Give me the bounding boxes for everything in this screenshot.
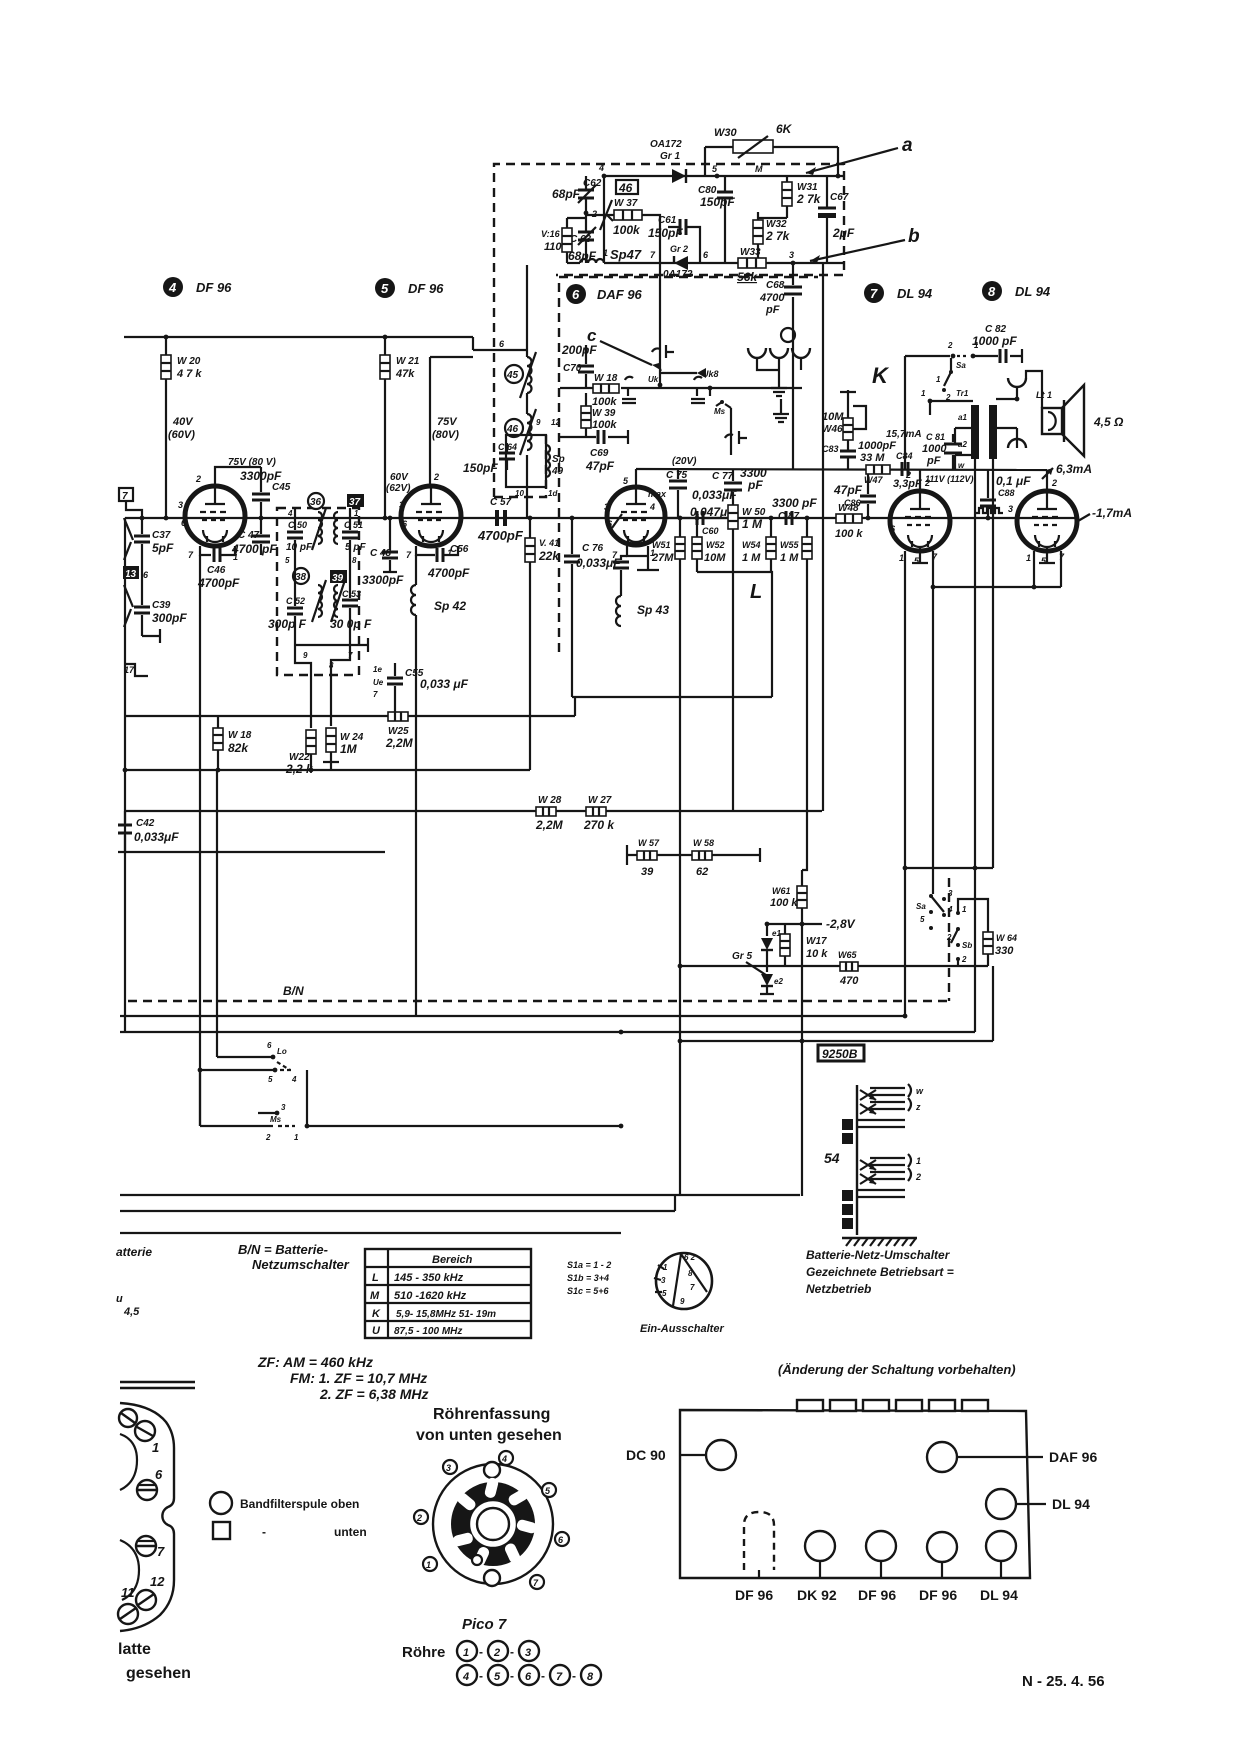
svg-text:z: z	[915, 1102, 921, 1112]
socket pin labels	[414, 1451, 569, 1589]
svg-text:Lo: Lo	[277, 1047, 287, 1056]
svg-text:1d: 1d	[548, 489, 558, 498]
wire bus y1016	[120, 1015, 905, 1017]
svg-text:150pF: 150pF	[463, 461, 498, 475]
wire from FM box down	[526, 265, 528, 357]
svg-text:45: 45	[506, 370, 519, 381]
dial plate outline	[120, 1403, 174, 1631]
node pin5	[712, 164, 719, 178]
svg-text:1: 1	[921, 389, 926, 398]
svg-text:b: b	[908, 226, 920, 247]
coil 46	[520, 409, 536, 455]
wire contact drop	[730, 418, 732, 455]
svg-text:W65: W65	[838, 950, 858, 960]
resistor W48 100k	[836, 514, 862, 523]
svg-text:1: 1	[152, 1440, 159, 1455]
capacitor C63 68pF trimmer	[578, 213, 596, 263]
svg-text:U: U	[372, 1325, 381, 1337]
node pin3	[789, 250, 795, 265]
svg-text:1: 1	[1026, 553, 1031, 563]
diode Gr1	[672, 169, 686, 183]
resistor W65 470	[840, 962, 858, 971]
svg-text:a1: a1	[958, 413, 967, 422]
resistor W20 47k	[161, 337, 171, 518]
svg-text:C56: C56	[450, 544, 469, 555]
contact Ms	[258, 1103, 286, 1124]
node pin4	[598, 163, 606, 178]
svg-text:DAF 96: DAF 96	[597, 287, 643, 302]
svg-text:27M: 27M	[651, 552, 674, 564]
switch contact pair mid	[691, 377, 705, 403]
wire bus y1032	[120, 868, 975, 1032]
capacitor C50 10pF	[287, 508, 303, 560]
svg-text:-1,7mA: -1,7mA	[1092, 506, 1132, 520]
label 75V (80V)	[432, 416, 459, 441]
boxed 9250B	[818, 1045, 864, 1061]
svg-text:62: 62	[696, 866, 708, 878]
S4 lower braces	[908, 1154, 921, 1182]
svg-text:C37: C37	[152, 530, 171, 541]
svg-text:latte: latte	[118, 1641, 151, 1658]
svg-text:W33: W33	[740, 247, 761, 258]
tube hole DF96 mid	[866, 1531, 896, 1578]
wire between coils	[526, 393, 528, 414]
svg-text:2μF: 2μF	[832, 226, 855, 240]
wire transformer verticals down	[975, 458, 993, 868]
svg-text:11: 11	[121, 1585, 135, 1600]
tube hole DL94 upper	[986, 1489, 1016, 1519]
svg-text:S1a = 1 - 2: S1a = 1 - 2	[567, 1260, 611, 1270]
speaker horn	[1062, 385, 1084, 456]
svg-text:DF 96: DF 96	[196, 280, 232, 295]
svg-text:W52: W52	[706, 540, 725, 550]
svg-text:4700: 4700	[759, 292, 785, 304]
svg-text:111V (112V): 111V (112V)	[925, 474, 974, 484]
capacitor C77 3300pF	[724, 469, 742, 505]
label 4700 pF	[759, 292, 785, 316]
capacitor C88 0.1uF	[980, 469, 996, 518]
svg-text:2: 2	[905, 470, 911, 480]
svg-text:37: 37	[349, 497, 361, 508]
dashed enclosure FM ratio detector	[494, 164, 844, 497]
svg-text:L: L	[750, 581, 762, 603]
badge tube 7	[864, 283, 884, 303]
node secondary	[1015, 397, 1020, 402]
wire W52 to L node	[697, 572, 772, 697]
svg-text:Ms: Ms	[714, 407, 726, 416]
svg-text:DL 94: DL 94	[1015, 284, 1051, 299]
capacitor C60 0.047uF	[666, 511, 733, 525]
svg-text:5: 5	[381, 281, 389, 296]
wire bus y1233	[120, 1232, 621, 1234]
capacitor C37 5pF	[134, 536, 150, 542]
circled 46	[505, 419, 523, 437]
svg-text:8: 8	[352, 556, 357, 565]
svg-text:Gr 5: Gr 5	[732, 951, 752, 962]
node left	[140, 516, 145, 521]
jack sockets triple	[748, 348, 810, 396]
svg-text:C60: C60	[702, 526, 719, 536]
svg-text:0,1 μF: 0,1 μF	[996, 474, 1031, 488]
svg-text:C 57: C 57	[490, 497, 512, 508]
wire bus y770	[125, 769, 530, 771]
capacitor C46 4700pF	[214, 548, 220, 562]
switch Sa top	[947, 341, 979, 370]
contact Ms pair	[710, 388, 731, 418]
label Roehre row2	[457, 1665, 601, 1685]
wire tube7 pin7 to bus587	[932, 551, 934, 587]
contact Lo	[217, 1041, 290, 1070]
svg-text:100 k: 100 k	[770, 897, 798, 909]
svg-text:9: 9	[536, 418, 541, 427]
screw 12	[136, 1590, 156, 1610]
capacitor C52 300pF	[287, 560, 303, 655]
S4 frame squares	[842, 1119, 853, 1229]
svg-text:6: 6	[890, 524, 896, 534]
svg-text:C 52: C 52	[286, 596, 305, 606]
capacitor C80 150pF	[717, 176, 733, 263]
contact T above W46	[840, 390, 856, 418]
svg-text:DF 96: DF 96	[858, 1587, 896, 1603]
svg-text:Bandfilterspule oben: Bandfilterspule oben	[240, 1497, 359, 1511]
svg-text:1000: 1000	[922, 443, 947, 455]
svg-text:V. 41: V. 41	[539, 538, 559, 548]
svg-text:3: 3	[525, 1647, 531, 1659]
svg-text:47pF: 47pF	[833, 483, 863, 497]
svg-text:47k: 47k	[395, 368, 415, 380]
node mid	[708, 386, 713, 391]
svg-text:1: 1	[663, 1263, 668, 1272]
svg-text:7: 7	[188, 550, 194, 560]
wire bottom row FM box y263	[604, 262, 844, 264]
svg-text:von unten gesehen: von unten gesehen	[416, 1427, 562, 1444]
node junctions y770	[123, 768, 314, 773]
svg-text:unten: unten	[334, 1525, 367, 1539]
wire tube8 cathode T	[1039, 547, 1055, 563]
capacitor C62 68pF trimmer	[578, 176, 596, 213]
svg-text:u: u	[116, 1293, 123, 1305]
svg-text:W 20: W 20	[177, 356, 201, 367]
svg-text:M: M	[370, 1290, 380, 1302]
pointer a	[806, 135, 913, 175]
svg-text:W47: W47	[864, 475, 884, 485]
resistor V16 110	[562, 218, 586, 263]
speaker coil bar	[1063, 400, 1065, 442]
label Sta Stb Stc	[567, 1260, 611, 1296]
svg-text:2: 2	[915, 1172, 921, 1182]
svg-text:3: 3	[1008, 504, 1013, 514]
wire left edge riser	[126, 501, 142, 518]
svg-text:300pF: 300pF	[152, 611, 187, 625]
wire W24 stub	[323, 762, 339, 770]
capacitor C57 4700pF	[495, 510, 507, 526]
svg-text:(20V): (20V)	[672, 456, 697, 467]
box around C64	[506, 435, 546, 487]
svg-text:DF 96: DF 96	[735, 1587, 773, 1603]
svg-text:-2,8V: -2,8V	[826, 917, 856, 931]
svg-text:2. ZF = 6,38 MHz: 2. ZF = 6,38 MHz	[319, 1386, 429, 1402]
svg-text:2 7k: 2 7k	[765, 229, 791, 243]
label DL 94	[1016, 1496, 1090, 1512]
svg-text:82k: 82k	[228, 741, 249, 755]
wire tube8 pin1 to bus587	[1033, 551, 1035, 587]
svg-text:7: 7	[122, 491, 128, 502]
svg-text:6: 6	[499, 339, 505, 349]
resistor W58 62	[692, 851, 712, 860]
resistor W52 10M	[692, 518, 702, 572]
jack U upper	[1008, 378, 1026, 387]
svg-text:(80V): (80V)	[432, 429, 459, 441]
svg-text:7: 7	[406, 550, 412, 560]
wire switch riser b	[216, 770, 218, 1057]
dial inner arc upper	[120, 1434, 137, 1490]
svg-text:Röhrenfassung: Röhrenfassung	[433, 1406, 550, 1423]
capacitor C81 1000pF	[944, 434, 962, 470]
label ZF notes	[257, 1354, 429, 1402]
label -6.3mA	[1042, 462, 1092, 479]
svg-text:C 81: C 81	[926, 432, 945, 442]
svg-text:Gr 2: Gr 2	[670, 244, 688, 254]
svg-text:Sp: Sp	[552, 454, 565, 465]
svg-text:C67: C67	[830, 192, 849, 203]
svg-text:pF: pF	[765, 304, 780, 316]
resistor W21 47k	[380, 337, 390, 518]
capacitor C87 3300pF	[786, 511, 792, 525]
S4 ground hatch	[842, 1238, 917, 1246]
resistor W24 1M	[326, 728, 336, 762]
dashed box right edge	[948, 878, 950, 1001]
svg-text:60V: 60V	[390, 472, 409, 483]
badge tube 4	[163, 277, 183, 297]
svg-text:300p F: 300p F	[268, 617, 307, 631]
svg-text:6: 6	[155, 1467, 163, 1482]
svg-text:0,033 μF: 0,033 μF	[420, 677, 469, 691]
resistor W61 100k	[797, 870, 807, 1196]
svg-text:49: 49	[551, 466, 564, 477]
indicator circle	[781, 328, 795, 342]
transformer primary bar	[971, 405, 979, 459]
capacitor C76 0.033uF	[613, 556, 629, 596]
svg-text:OA172: OA172	[650, 139, 682, 150]
wire top rail W30	[705, 147, 838, 176]
wire b node drop	[822, 263, 824, 811]
resistor V41 22k	[525, 518, 535, 770]
screw 6	[137, 1480, 157, 1500]
svg-text:C 63: C 63	[570, 234, 592, 245]
svg-text:Sa: Sa	[956, 361, 966, 370]
tube DL94 no7	[890, 478, 950, 566]
svg-text:7: 7	[690, 1283, 695, 1292]
wire cathode down long	[199, 555, 201, 1126]
svg-text:5: 5	[268, 1075, 273, 1084]
dial inner arc lower	[120, 1540, 139, 1600]
svg-text:FM: 1. ZF = 10,7 MHz: FM: 1. ZF = 10,7 MHz	[290, 1370, 427, 1386]
svg-text:Sb: Sb	[962, 941, 972, 950]
svg-text:K: K	[372, 1308, 381, 1320]
svg-text:S1b = 3+4: S1b = 3+4	[567, 1273, 609, 1283]
svg-text:87,5 - 100 MHz: 87,5 - 100 MHz	[394, 1326, 462, 1337]
wire K switch riser	[905, 356, 950, 470]
contact row4	[200, 1124, 309, 1142]
junction dots main bus	[164, 516, 991, 521]
tube hole DL94 lower	[986, 1531, 1016, 1578]
svg-text:7: 7	[556, 1671, 563, 1683]
wire bus y1195	[120, 1194, 800, 1196]
label Batterie-Netz-Umschalter	[806, 1248, 954, 1296]
svg-text:8: 8	[688, 1269, 693, 1278]
label 60V (62V)	[386, 472, 411, 494]
svg-text:2: 2	[947, 341, 953, 350]
svg-text:1000pF: 1000pF	[858, 440, 896, 452]
svg-text:1: 1	[899, 553, 904, 563]
wire coil46 bottom	[526, 455, 528, 518]
wire tube5 cathode row	[416, 546, 458, 555]
coil Sp47	[570, 247, 656, 263]
svg-text:100k: 100k	[592, 419, 617, 431]
wire mid horizontal pin9	[295, 638, 368, 652]
wire 75V bracket tube4	[215, 467, 261, 486]
capacitor C55 0.033uF	[373, 663, 403, 716]
tube hole DAF96	[927, 1442, 957, 1472]
svg-text:13: 13	[125, 569, 137, 580]
wire to transformer primary top	[930, 401, 973, 415]
wire bus y966	[680, 965, 988, 967]
wire AGC row y388	[560, 387, 802, 389]
node bus joins	[678, 964, 908, 1019]
svg-text:5 pF: 5 pF	[345, 542, 366, 553]
svg-text:W46: W46	[822, 424, 843, 435]
svg-text:6: 6	[703, 250, 709, 260]
svg-text:atterie: atterie	[116, 1245, 152, 1259]
wire pin4 drop	[603, 176, 605, 263]
svg-text:Netzbetrieb: Netzbetrieb	[806, 1282, 871, 1296]
resistor W31 27k	[782, 176, 792, 218]
wire bus jog to coil45	[473, 349, 527, 351]
resistor W32 27k	[753, 212, 787, 263]
resistor W17 10k	[780, 924, 790, 966]
svg-text:4700pF: 4700pF	[427, 566, 470, 580]
labels bottom tubes	[735, 1587, 1018, 1603]
pointer b	[810, 226, 920, 263]
wire Ms bus to x619	[307, 1125, 621, 1127]
pointer Gr5	[746, 962, 766, 975]
tube hole DC90	[706, 1440, 736, 1470]
label DC 90	[626, 1447, 706, 1463]
svg-text:W 64: W 64	[996, 933, 1017, 943]
wire Sb to W64	[958, 899, 988, 966]
svg-text:Ue: Ue	[373, 678, 384, 687]
capacitor C47 4700pF	[252, 518, 270, 555]
svg-text:1: 1	[603, 248, 608, 258]
svg-text:47pF: 47pF	[585, 459, 615, 473]
svg-text:15,7mA: 15,7mA	[886, 429, 922, 440]
svg-text:1 M: 1 M	[780, 552, 799, 564]
pin labels bandfilter	[285, 509, 359, 670]
svg-text:a: a	[902, 135, 913, 156]
svg-text:W 21: W 21	[396, 356, 420, 367]
svg-text:9: 9	[303, 651, 308, 660]
svg-text:C 75: C 75	[666, 470, 688, 481]
coil filter upper left	[312, 508, 326, 550]
svg-text:V:16: V:16	[541, 229, 561, 239]
svg-text:Ms: Ms	[270, 1115, 282, 1124]
wire Sa riser	[932, 587, 934, 887]
svg-text:4700pF: 4700pF	[477, 528, 524, 543]
svg-text:10 k: 10 k	[806, 948, 828, 960]
contact lower	[725, 431, 747, 444]
svg-text:DL 94: DL 94	[1052, 1496, 1090, 1512]
svg-text:DL 94: DL 94	[980, 1587, 1018, 1603]
resistor W55 1M	[802, 518, 812, 870]
svg-text:1: 1	[936, 375, 941, 384]
pin labels 9 12	[536, 418, 560, 427]
capacitor C68 4700pF	[784, 263, 802, 470]
wire primary taps	[955, 428, 973, 470]
svg-text:5: 5	[712, 164, 718, 174]
svg-text:S1c = 5+6: S1c = 5+6	[567, 1286, 610, 1296]
svg-text:1: 1	[463, 1647, 469, 1659]
svg-text:C45: C45	[272, 482, 291, 493]
svg-text:40V: 40V	[172, 416, 194, 428]
svg-text:10: 10	[515, 489, 524, 498]
wire bus y716	[125, 697, 575, 716]
capacitor C83 1000pF	[840, 447, 856, 469]
svg-text:12: 12	[150, 1574, 165, 1589]
wire screen bus y469	[636, 469, 1047, 470]
svg-text:B/N: B/N	[283, 984, 304, 998]
capacitor C67 2uF	[818, 176, 836, 263]
svg-text:-: -	[262, 1525, 266, 1539]
svg-text:W 37: W 37	[614, 198, 638, 209]
svg-text:W30: W30	[714, 127, 738, 139]
contact terminal bar	[142, 629, 160, 643]
svg-text:110: 110	[544, 241, 562, 253]
tube outline DF96 dashed	[744, 1512, 774, 1578]
svg-text:C69: C69	[590, 448, 609, 459]
svg-text:-: -	[572, 1669, 576, 1683]
svg-text:5: 5	[285, 556, 290, 565]
screw 7	[136, 1536, 156, 1556]
wire Uk8 arrow	[660, 368, 719, 379]
svg-text:75V: 75V	[437, 416, 458, 428]
svg-text:10 pF: 10 pF	[286, 542, 313, 553]
svg-text:46: 46	[506, 424, 519, 435]
chassis box	[680, 1410, 1030, 1578]
svg-text:-: -	[510, 1669, 514, 1683]
wire anode row y176	[604, 175, 844, 177]
svg-text:C62: C62	[583, 178, 602, 189]
capacitor C82 1000pF	[973, 349, 1022, 363]
switch contact pair left	[622, 377, 636, 403]
svg-text:2: 2	[493, 1647, 500, 1659]
svg-text:B/N = Batterie-: B/N = Batterie-	[238, 1242, 328, 1257]
S4 upper wires	[857, 1088, 905, 1127]
svg-text:2: 2	[433, 472, 439, 482]
svg-text:W17: W17	[806, 936, 827, 947]
svg-text:C88: C88	[998, 488, 1015, 498]
svg-text:330: 330	[995, 945, 1014, 957]
svg-text:39: 39	[641, 866, 654, 878]
wire right bus y868	[903, 860, 993, 868]
resistor W27 270k	[586, 807, 606, 816]
capacitor C53 300pF	[342, 560, 358, 648]
svg-text:7: 7	[650, 250, 656, 260]
svg-text:7: 7	[373, 690, 378, 699]
svg-text:1: 1	[294, 1133, 299, 1142]
wire tube8 top pin	[1046, 470, 1048, 491]
wire bus y1211	[120, 1195, 675, 1211]
resistor W33 56k	[738, 258, 766, 268]
